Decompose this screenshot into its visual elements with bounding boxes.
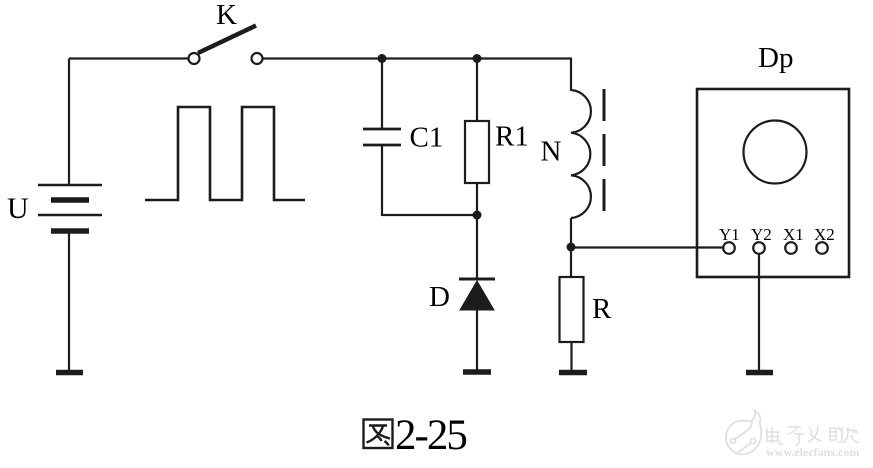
switch K left contact xyxy=(189,53,200,64)
inductor core dashed line xyxy=(603,89,606,211)
battery bottom terminal bar xyxy=(56,370,83,376)
terminal Y2 xyxy=(753,242,765,254)
svg-text:Dp: Dp xyxy=(758,42,793,74)
svg-text:D: D xyxy=(429,281,450,313)
node junction dot R1/C1/D xyxy=(473,211,482,220)
svg-text:R: R xyxy=(592,293,612,325)
wire node to diode cathode xyxy=(476,215,478,279)
resistor R xyxy=(560,277,584,342)
wire R1 bottom to node xyxy=(476,183,478,215)
node junction dot below N xyxy=(567,243,576,252)
wire battery top to rail xyxy=(68,59,70,186)
svg-text:U: U xyxy=(7,192,29,225)
svg-text:N: N xyxy=(541,136,562,168)
svg-text:C1: C1 xyxy=(410,122,444,154)
node junction dot at C1 branch xyxy=(378,54,387,63)
battery U xyxy=(38,185,102,231)
wire Y2 ground xyxy=(758,254,760,371)
terminal Y1 xyxy=(723,242,735,254)
diode bottom terminal bar xyxy=(463,369,491,375)
wire rail to C1 top xyxy=(381,59,383,130)
caption 图2-25 xyxy=(364,412,467,459)
terminal X2 xyxy=(816,242,828,254)
svg-text:Y2: Y2 xyxy=(751,225,772,244)
wire rail left (battery to switch) xyxy=(69,57,189,59)
terminal X1 xyxy=(785,242,797,254)
svg-text:www.elecfans.com: www.elecfans.com xyxy=(766,445,859,459)
switch K blade xyxy=(198,26,256,54)
wire node to oscilloscope Y1 xyxy=(571,246,723,248)
wire R bottom down xyxy=(570,342,572,371)
capacitor C1 xyxy=(363,129,401,145)
oscilloscope screen circle xyxy=(744,121,807,184)
Y2 ground terminal bar xyxy=(746,370,773,376)
wire diode anode down xyxy=(476,310,478,371)
watermark logo xyxy=(726,411,761,455)
wire C1 bottom to R1 bottom node xyxy=(382,214,477,216)
svg-text:X1: X1 xyxy=(783,225,804,244)
node junction dot at R1 branch xyxy=(473,54,482,63)
inductor N coil xyxy=(571,90,591,218)
wire rail right (switch to inductor corner) xyxy=(263,57,572,59)
resistor R1 xyxy=(465,121,489,183)
wire C1 bottom down xyxy=(381,145,383,216)
svg-text:X2: X2 xyxy=(814,225,835,244)
wire coil bottom to R top xyxy=(570,218,572,277)
svg-text:K: K xyxy=(216,0,237,31)
oscilloscope Dp box xyxy=(697,89,849,277)
wire rail corner down to coil N xyxy=(570,58,572,92)
R bottom terminal bar xyxy=(559,370,587,376)
diode D xyxy=(459,279,495,310)
switch K right contact xyxy=(252,53,263,64)
wire rail to R1 top xyxy=(476,59,478,122)
square wave symbol xyxy=(145,107,305,200)
svg-text:R1: R1 xyxy=(495,121,529,153)
wire battery bottom down xyxy=(68,231,70,371)
svg-text:2-25: 2-25 xyxy=(395,412,466,459)
watermark text 电子发烧友 xyxy=(765,426,859,445)
